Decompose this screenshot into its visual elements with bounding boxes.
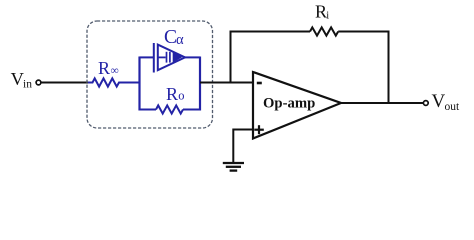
op-amp minus sign (257, 82, 262, 85)
op-amp U1 (253, 72, 341, 139)
wire feedback top left (230, 31, 311, 33)
svg-text:o: o (178, 89, 184, 103)
resistor Ro (156, 105, 183, 113)
ground (223, 129, 244, 171)
op-amp plus sign (254, 125, 263, 134)
wire feedback top right (338, 31, 389, 33)
node Vout label (432, 91, 461, 113)
resistor Ri (310, 27, 338, 35)
label C-alpha (164, 27, 184, 48)
svg-text:∞: ∞ (111, 65, 119, 77)
svg-text:V: V (432, 91, 446, 112)
terminal Vin (36, 80, 41, 85)
terminal Vout (423, 101, 428, 106)
svg-text:in: in (23, 79, 32, 91)
dashed box (fractional element model) (87, 21, 213, 128)
svg-text:R: R (98, 58, 110, 78)
node Vin label (11, 69, 33, 91)
svg-text:R: R (166, 84, 178, 104)
wire non-inverting input (233, 129, 253, 131)
label Ri (315, 2, 329, 22)
svg-text:out: out (445, 101, 461, 113)
fractional capacitor C-alpha (154, 43, 185, 73)
wire bottom branch right (183, 109, 200, 111)
svg-text:R: R (315, 2, 327, 22)
wire top branch left (140, 56, 155, 58)
svg-text:α: α (176, 32, 184, 48)
parallel network right rail (199, 57, 201, 111)
wire Vin to dashed box (42, 82, 89, 84)
wire top branch right (185, 56, 201, 58)
wire feedback right vertical (388, 31, 390, 104)
resistor Rinf (88, 78, 140, 86)
parallel network left rail (138, 57, 140, 111)
wire bottom branch left (140, 109, 157, 111)
label Ro (166, 84, 185, 104)
wire op-amp output (341, 102, 423, 104)
label Rinf (98, 58, 119, 78)
wire box to op-amp inverting input (200, 82, 253, 84)
svg-text:Op-amp: Op-amp (263, 96, 315, 112)
svg-text:i: i (326, 11, 329, 22)
wire feedback left vertical (230, 31, 232, 83)
